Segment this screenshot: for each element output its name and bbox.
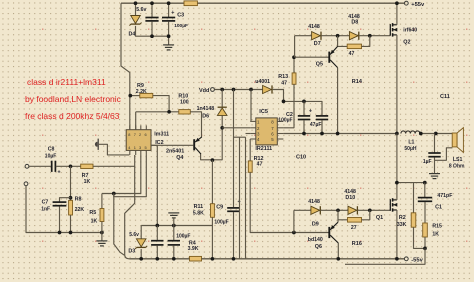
wire D3 to bus [140,249,142,259]
zener diode D4 5.6v [130,16,142,26]
wire Vdd rail [214,89,262,91]
ground (input) [96,241,107,246]
resistor R11 5.8K [211,160,213,204]
wire Q2 drain to rail [396,3,398,25]
node D7-D8 [336,34,340,38]
svg-text:47µF: 47µF [310,122,322,128]
wire +55v top rail [121,2,404,4]
wire D3 top [140,226,142,239]
node bus-Q6 [336,257,340,261]
wire to IC5 pin 2 [222,127,250,129]
svg-text:LS1: LS1 [453,157,463,163]
node VS-L1 [395,132,399,136]
wire cap C3a top [151,3,153,17]
node D10-gate [368,208,372,212]
node bus-R11 [211,257,215,261]
svg-text:by foodland,LN electronic: by foodland,LN electronic [25,94,122,104]
node R5-gnd [100,231,104,235]
node R13 top / Q5 base [292,55,296,59]
svg-text:100µF: 100µF [214,219,228,225]
node R8/C7 [69,196,73,200]
svg-text:L1: L1 [408,139,414,145]
wire IC5 pin3 to bus [245,137,247,259]
node C7-gnd [58,231,62,235]
resistor R4 3.9K [190,256,202,261]
node LO drive [292,231,296,235]
wire column A to bus [239,137,241,259]
capacitor C1 471pF [424,183,426,197]
wire -55v bus (right) [202,258,405,260]
svg-text:R14: R14 [352,79,363,85]
svg-text:27: 27 [351,225,357,231]
ground (cluster) [168,213,179,218]
wire cluster top [141,225,212,227]
wire cap B bottom [173,246,175,259]
svg-text:+: + [309,109,312,115]
resistor R2 33K [413,183,415,213]
wire cap A top [156,226,158,241]
wire speaker return [435,148,453,161]
capacitor C9 100uF [233,90,235,208]
diode D10 4148 [348,206,357,214]
svg-text:u4001: u4001 [255,79,270,85]
svg-text:6: 6 [145,132,147,137]
svg-text:D6: D6 [202,113,209,119]
resistor R12 47 [249,139,251,161]
transistor Q6 bd140 [329,222,338,243]
svg-text:Q1: Q1 [376,215,383,221]
node Vb corner [282,100,286,104]
diode D9 4148 [311,206,320,214]
svg-text:R8: R8 [75,196,82,202]
speaker LS1 8 Ohm [452,128,463,153]
svg-text:bd140: bd140 [308,237,323,243]
svg-text:1K: 1K [91,218,98,224]
wire C3 top [168,3,170,17]
svg-text:class d ir2111+lm311: class d ir2111+lm311 [27,77,106,87]
svg-text:100: 100 [180,99,189,105]
node VS-Q5 [336,132,340,136]
inductor L1 50uH [401,131,420,134]
svg-text:4148: 4148 [308,199,320,205]
svg-text:1µF: 1µF [423,159,432,165]
wire cap B top / 100uF [173,217,175,240]
capacitor 100uF (cluster) [168,241,180,245]
svg-text:IR2111: IR2111 [255,146,272,152]
wire C2 top [303,101,305,115]
wire jack to lm311 pin [99,144,130,155]
svg-text:4148: 4148 [308,24,320,30]
node rail-C3 [167,1,171,5]
wire Q1 source to -55v bus [396,210,398,259]
svg-text:2: 2 [139,132,141,137]
node rail-Q2 [395,1,399,5]
svg-text:+: + [171,10,174,16]
svg-text:C3: C3 [177,12,184,18]
wire lm311 pin to D3 cluster [151,145,157,225]
node D8-gate [368,34,372,38]
resistor 47 (gate, high side) [338,36,348,47]
node R9 left / lm311 pin column [128,94,132,98]
wire lm311 V- to bus [125,155,135,255]
wire to D7 [295,35,312,37]
capacitor 47uF bootstrap [316,116,328,120]
svg-text:2n5401: 2n5401 [166,149,184,155]
wire Q6 emitter tie [337,220,339,222]
wire D7 anode column [294,36,296,58]
wire D6 cathode [221,90,223,107]
svg-text:R10: R10 [178,93,188,99]
wire feedback node to bus join [114,194,125,256]
comparator IC2 lm311 [126,125,151,155]
wire pin3 stub link [246,133,251,135]
svg-text:C10: C10 [296,155,306,161]
wire D8 to Q2 gate [359,35,390,37]
svg-text:22K: 22K [75,207,85,213]
svg-text:R15: R15 [432,224,442,230]
node bus-capA [155,257,159,261]
svg-text:-55v: -55v [411,257,423,263]
svg-text:1nF: 1nF [41,206,50,212]
node D6-pin2 [220,126,224,130]
wire lm311 out to Q4 base [151,144,193,146]
svg-text:+55v: +55v [411,2,425,8]
svg-text:5.6v: 5.6v [136,7,146,13]
svg-text:100µF: 100µF [278,118,292,124]
svg-text:D4: D4 [129,31,136,37]
wire to D4 [135,3,137,15]
svg-text:47: 47 [257,162,263,168]
svg-text:R11: R11 [194,204,204,210]
node cluster A [155,224,159,228]
node Vdd-D6 [220,88,224,92]
wire C8 to R7 [56,165,81,167]
terminal audio input [25,164,29,168]
resistor R13 47 [293,57,295,73]
wire R10 to Q4 emitter [190,112,201,137]
wire to D9 [294,209,311,211]
svg-text:2.2K: 2.2K [136,89,147,95]
capacitor (cluster, left) [151,241,163,245]
svg-text:1: 1 [134,145,136,150]
wire -55v bus (left) [130,258,190,260]
node C1 top [423,181,427,185]
svg-text:Q4: Q4 [176,155,183,161]
wire tie at y137 [234,136,246,138]
diode u4001 [263,85,272,93]
svg-text:1n4148: 1n4148 [197,106,215,112]
svg-text:3.9K: 3.9K [188,246,199,252]
svg-text:R5: R5 [89,210,96,216]
wire D10 to Q1 gate [358,209,391,211]
svg-text:D10: D10 [345,195,355,201]
resistor R7 1K [81,164,93,168]
svg-text:Vdd: Vdd [199,88,209,94]
capacitor C8 10uF [52,161,56,172]
wire cap A bottom [156,246,158,259]
wire cap C3a bottom [151,22,153,37]
node Vb-C2 [302,100,306,104]
svg-text:D7: D7 [314,41,321,47]
wire Q5 base [295,56,329,58]
wire D9-D10 [321,209,349,211]
wire C3 bottom to ground [168,22,170,45]
svg-text:C11: C11 [440,94,450,100]
resistor R9 2.2K [130,95,140,97]
svg-text:8 Ohm: 8 Ohm [449,164,465,170]
node capA bottom [150,34,154,38]
MOSFET Q2 irf640 [390,23,397,36]
node L1 out [419,132,423,136]
resistor R8 22K [70,166,72,200]
svg-text:47: 47 [281,80,287,86]
terminal input ground [24,182,28,186]
node L1-1uF [434,132,438,136]
transistor Q5 [329,46,337,67]
node C3 bottom [167,34,171,38]
wire D6 anode / Q4 collector node [201,116,223,160]
wire 47uF bottom [321,120,323,133]
wire C2 bottom [303,120,305,133]
node Q4 collector / R11 [211,158,215,162]
svg-text:+: + [58,169,61,175]
node snubber tap [395,181,399,185]
svg-text:C7: C7 [42,199,49,205]
diode D8 4148 [349,32,358,40]
input jack symbol [95,139,98,150]
svg-text:Q2: Q2 [403,40,410,46]
svg-text:471pF: 471pF [437,193,452,199]
transistor Q4 2n5401 [194,137,202,154]
wire Q6 collector to bus [337,243,339,259]
svg-text:irf640: irf640 [403,27,417,33]
svg-text:D8: D8 [351,20,358,26]
svg-text:D3: D3 [128,248,135,254]
resistor R15 1K [424,202,426,223]
node R8-gnd [69,231,73,235]
wire input ground rail [26,186,102,233]
svg-text:R16: R16 [352,241,362,247]
svg-text:100µF: 100µF [176,233,190,239]
node bus-capB [172,257,176,261]
capacitor C3 100uF [162,18,175,21]
node Vdd-C9 [232,88,236,92]
svg-text:7: 7 [134,132,136,137]
node cluster B [172,224,176,228]
svg-text:C8: C8 [48,146,55,152]
svg-text:47: 47 [349,51,355,57]
node rail-capA [150,1,154,5]
wire snubber return [345,248,425,264]
wire VS output node [283,133,397,135]
terminal Vdd [211,88,215,92]
capacitor 1uF [434,134,436,153]
terminal +55v [404,1,408,5]
node R9/R10 junction [167,110,171,114]
resistor 27 (gate, low side) [338,210,348,220]
svg-text:100µF: 100µF [174,23,188,29]
svg-text:Q6: Q6 [315,244,322,250]
svg-text:8: 8 [128,132,130,137]
node rail-D4 [134,1,138,5]
wire R7 to lm311 pin [93,165,135,167]
wire Q5 collector to output node [337,68,339,134]
svg-text:50µH: 50µH [404,146,416,152]
node bus-Q1 [395,257,399,261]
node feedback [112,192,116,196]
wire D7-D8 [321,35,349,37]
ground (1uF) [429,174,440,179]
wire u4001 to bootstrap node [273,90,322,116]
svg-text:33K: 33K [397,222,407,228]
ground (C3) [163,45,174,50]
fuse/resistor on top rail [184,1,197,6]
svg-text:10µF: 10µF [45,153,57,159]
svg-text:5.6v: 5.6v [129,232,139,238]
wire input to C8 [29,165,51,167]
svg-text:R2: R2 [399,215,406,221]
svg-text:C1: C1 [435,204,442,210]
capacitor C7 1nF [60,198,71,202]
svg-text:Q5: Q5 [316,62,323,68]
wire R5 to lm311 pin [102,155,141,194]
resistor R5 1K [101,194,103,209]
wire left column to lm311 pin 8 [121,3,130,130]
wire snubber tap [397,182,425,184]
wire L1 to speaker [420,133,452,135]
wire to lm311 pin (inner) [114,155,147,197]
svg-text:1K: 1K [84,179,91,185]
zener diode D3 5.6v [135,239,147,249]
node C8/R7/R8 [69,164,73,168]
svg-text:IC5: IC5 [259,109,268,115]
node VS-C2 [302,132,306,136]
capacitor C2 100uF [298,116,310,120]
wire riser to D9 [293,210,295,232]
diode D6 1n4148 [217,107,227,115]
svg-text:1K: 1K [432,231,439,237]
node bus-C9 [232,257,236,261]
svg-text:lm311: lm311 [154,132,169,138]
op-amp/driver IC5 IR2111 [250,118,283,145]
MOSFET Q1 [390,198,397,212]
wire Vdd to IC5 pin1 [250,90,252,122]
wire Q2 source to output node [396,35,398,134]
svg-text:5.8K: 5.8K [193,210,204,216]
node VS-47uF [320,132,324,136]
svg-text:5: 5 [145,145,147,150]
svg-text:R13: R13 [278,74,288,80]
svg-text:3: 3 [139,145,141,150]
node Vdd-pin1 [249,88,253,92]
svg-text:fre class d 200khz 5/4/63: fre class d 200khz 5/4/63 [25,111,120,121]
terminal -55v [404,257,408,261]
node D9-D10 [336,208,340,212]
svg-text:D9: D9 [312,222,319,228]
diode D7 4148 [312,32,321,40]
svg-text:C9: C9 [216,205,223,211]
capacitor (bypass, beside C3) [145,18,158,21]
resistor R10 100 [136,111,179,113]
node bus-D3 [139,257,143,261]
wire D4 bottom tie [136,26,169,36]
wire output node to Q1 drain [396,134,398,200]
node R2/R15 bottom [423,247,427,251]
